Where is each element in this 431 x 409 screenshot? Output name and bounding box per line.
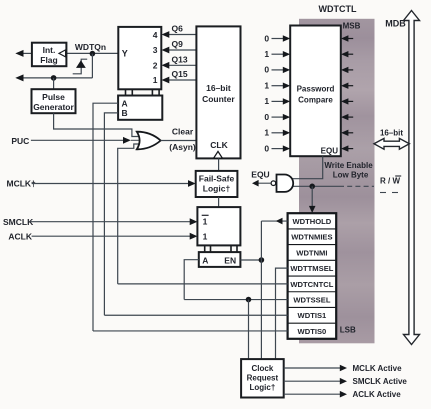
block Clock Request Logic	[241, 359, 284, 397]
node pulse generator junction dot	[51, 75, 57, 81]
wire WDTIS1 to tap select B	[104, 314, 287, 316]
svg-text:Y: Y	[122, 49, 128, 59]
svg-text:MSB: MSB	[343, 22, 361, 31]
svg-text:CLK: CLK	[210, 140, 228, 150]
svg-text:0: 0	[264, 33, 269, 43]
svg-text:Int.: Int.	[43, 45, 56, 55]
block Fail-Safe Logic	[196, 171, 238, 197]
mux to A/B select connector tabs	[126, 89, 160, 95]
svg-text:EQU: EQU	[321, 147, 339, 156]
block clock mux A/EN select	[199, 252, 241, 267]
svg-text:WDTSSEL: WDTSSEL	[293, 296, 330, 305]
clock mux to A/EN connector tabs	[205, 245, 237, 252]
svg-text:Compare: Compare	[298, 96, 333, 105]
svg-text:WDTCTL: WDTCTL	[319, 4, 357, 14]
wire MCLK to fail-safe logic	[32, 180, 196, 187]
svg-text:Fail-Safe: Fail-Safe	[199, 174, 235, 184]
password bit 0 value 0	[264, 143, 290, 153]
wire pulse generator input	[53, 78, 55, 89]
MDB bus double-headed arrow	[404, 11, 420, 345]
svg-text:Q6: Q6	[172, 24, 184, 34]
wire ACLK to clock mux	[32, 233, 198, 240]
block 16-bit Counter	[196, 26, 240, 158]
svg-text:Logic†: Logic†	[203, 184, 231, 194]
svg-text:Clear: Clear	[172, 127, 194, 137]
svg-text:A: A	[122, 98, 128, 108]
svg-text:WDTNMIES: WDTNMIES	[291, 233, 332, 242]
wire EQU output arrow	[252, 180, 271, 187]
password bit 2 value 0	[264, 112, 290, 122]
wire SMCLK to clock mux	[31, 218, 198, 225]
wire Q6 to mux input 4	[162, 31, 197, 38]
svg-text:WDTIS1: WDTIS1	[298, 311, 327, 320]
svg-text:EQU: EQU	[251, 169, 269, 179]
counter clock input triangle	[214, 151, 223, 158]
svg-text:Clock: Clock	[252, 364, 274, 373]
block tap multiplexer	[118, 27, 161, 89]
wire WDTHOLD to EN with left arrowhead	[261, 218, 287, 359]
gate OR (counter clear)	[137, 132, 161, 150]
node WDTSSEL junction dot	[246, 297, 252, 303]
password bit 1 value 1	[264, 128, 290, 138]
svg-text:PUC: PUC	[11, 136, 29, 146]
node WDTQn junction dot	[90, 51, 96, 57]
wire R/W dashed segment	[339, 185, 374, 187]
wire Q15 to mux input 1	[162, 77, 197, 84]
svg-text:WDTNMI: WDTNMI	[296, 248, 327, 257]
svg-text:A: A	[202, 255, 208, 265]
svg-text:16–bit: 16–bit	[380, 129, 403, 138]
svg-text:3: 3	[153, 45, 158, 55]
svg-text:SMCLK: SMCLK	[3, 217, 34, 227]
password bit 5 value 0	[264, 65, 290, 75]
wire tap select B from WDTIS1	[104, 113, 118, 315]
svg-text:ACLK: ACLK	[8, 232, 32, 242]
wire Y output of tap mux to Int.Flag	[66, 52, 118, 54]
svg-text:Logic†: Logic†	[250, 383, 276, 392]
block clock source mux	[197, 207, 240, 245]
gate write-enable NAND (mirrored)	[271, 175, 293, 192]
svg-text:Low Byte: Low Byte	[333, 171, 369, 180]
label R / W-bar	[380, 176, 401, 193]
block Pulse Generator	[32, 89, 76, 113]
wire PUC into OR gate	[31, 137, 140, 144]
svg-text:0: 0	[264, 65, 269, 75]
svg-text:WDTIS0: WDTIS0	[298, 327, 327, 336]
svg-text:(Asyn): (Asyn)	[169, 142, 196, 152]
svg-text:Q13: Q13	[172, 54, 188, 64]
svg-text:1: 1	[264, 49, 269, 59]
wire SMCLK Active output	[284, 378, 347, 385]
svg-text:16–bit: 16–bit	[206, 83, 231, 93]
svg-text:Q9: Q9	[172, 39, 184, 49]
password bit 4 value 1	[264, 81, 290, 91]
wire fail-safe to clock mux	[218, 197, 220, 207]
svg-text:0: 0	[264, 112, 269, 122]
wire ACLK Active output	[284, 391, 347, 398]
wire WDTTMSEL down to clock request logic	[276, 268, 288, 359]
svg-text:Write Enable: Write Enable	[324, 161, 373, 170]
svg-text:Generator: Generator	[33, 102, 74, 112]
wire interrupt line with left arrow	[15, 74, 92, 81]
svg-text:R / W: R / W	[380, 177, 400, 186]
password bit 3 value 1	[264, 96, 290, 106]
svg-text:MCLK Active: MCLK Active	[353, 364, 403, 373]
block Password Compare	[290, 26, 341, 157]
register byte arrows into password compare right side	[341, 35, 353, 152]
svg-text:LSB: LSB	[340, 326, 356, 335]
wire tap select A from WDTIS0	[93, 103, 118, 331]
svg-text:Pulse: Pulse	[42, 92, 65, 102]
svg-text:ACLK Active: ACLK Active	[353, 390, 402, 399]
svg-text:1: 1	[264, 128, 269, 138]
block control register stack	[288, 213, 337, 339]
svg-text:2: 2	[153, 61, 158, 71]
svg-text:Q15: Q15	[172, 69, 188, 79]
svg-text:WDTHOLD: WDTHOLD	[292, 217, 331, 226]
svg-text:Counter: Counter	[202, 94, 235, 104]
svg-text:1: 1	[153, 75, 158, 85]
node R/W junction dot	[309, 184, 315, 190]
wire WDTSSEL down to clock request logic	[248, 300, 250, 360]
wire fail-safe to counter clock	[218, 158, 220, 171]
wire WDTQn down to interrupt line	[91, 54, 93, 78]
password bit 6 value 1	[264, 49, 290, 59]
block tap mux A/B select	[118, 96, 162, 120]
wire Int.Flag left output arrow	[15, 50, 32, 57]
wire MCLK Active output	[284, 365, 347, 372]
svg-text:Request: Request	[247, 374, 279, 383]
wire A select from WDTSSEL	[184, 260, 199, 300]
svg-text:1: 1	[203, 217, 208, 227]
svg-text:4: 4	[153, 30, 158, 40]
svg-text:SMCLK Active: SMCLK Active	[353, 377, 408, 386]
svg-text:B: B	[122, 108, 128, 118]
wire WDTCNTCL to OR gate vertical	[118, 283, 288, 285]
wire R/W into write-enable gate	[292, 185, 339, 187]
svg-text:WDTQn: WDTQn	[75, 42, 106, 52]
WDTCTL register shaded area	[299, 19, 375, 344]
svg-text:EN: EN	[224, 255, 236, 265]
password bit 7 value 0	[264, 33, 290, 43]
wire EN from WDTHOLD	[240, 259, 261, 261]
svg-text:1: 1	[264, 81, 269, 91]
node EN junction dot	[259, 257, 265, 263]
block Int. Flag	[32, 43, 67, 66]
svg-text:1: 1	[264, 96, 269, 106]
svg-text:1: 1	[203, 231, 208, 241]
wire OR output to counter Clear	[161, 140, 197, 142]
wire WDTSSEL to clock mux A	[184, 299, 287, 301]
svg-text:WDTCNTCL: WDTCNTCL	[290, 280, 333, 289]
svg-text:0: 0	[264, 143, 269, 153]
wire password EQU down into write-enable gate	[292, 156, 323, 179]
wire write strobe down into register stack	[309, 186, 316, 213]
svg-text:Password: Password	[297, 85, 335, 94]
wire pulse generator output to OR gate	[54, 113, 140, 136]
wire WDTIS0 to tap select A	[93, 330, 288, 332]
wire Q13 to mux input 2	[162, 62, 197, 69]
rising edge symbol	[73, 59, 88, 74]
wire WDTCNTCL wrap into OR gate	[118, 144, 140, 284]
wire Q9 to mux input 3	[162, 47, 197, 54]
svg-text:WDTTMSEL: WDTTMSEL	[290, 264, 333, 273]
svg-text:Flag: Flag	[40, 55, 57, 65]
16-bit double arrow between WDTCTL and MDB	[374, 138, 409, 149]
